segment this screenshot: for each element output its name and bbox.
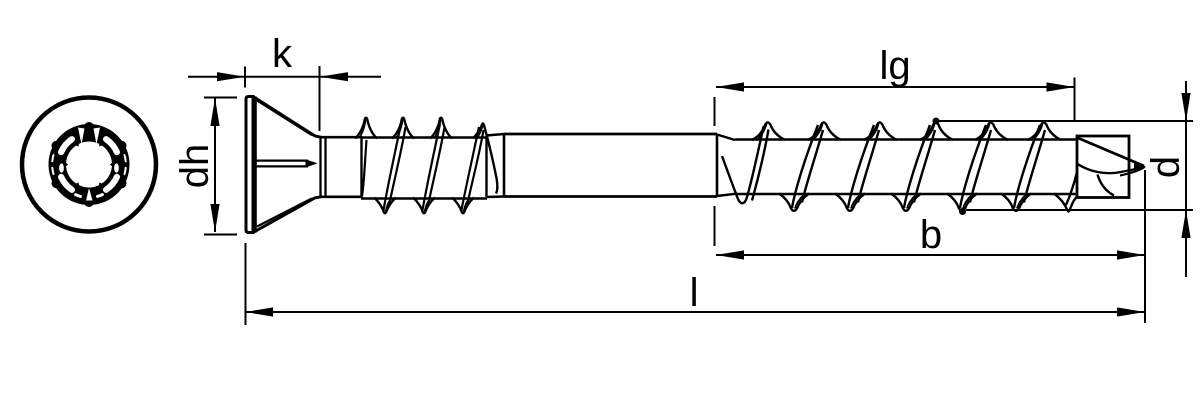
main thread bottom crest x=962 [947,194,977,211]
neck cylinder [321,136,362,139]
under-head thread top crest x=403 [392,118,414,139]
head cone inner bottom line [257,198,312,226]
svg-text:lg: lg [879,44,910,88]
main thread bottom crest x=794 [779,194,809,211]
thread-to-shank collar [485,136,487,197]
last under-head crest with run-out [473,124,497,194]
head recess mid wedge [306,159,318,167]
svg-text:d: d [1144,156,1188,178]
tip apex [1134,162,1146,173]
under-head thread bottom crest x=424 [413,198,435,214]
main thread top crest x=991 [975,122,1008,140]
shank end junction [716,134,719,197]
dim dh ext lines [204,97,237,99]
under-head thread top crest x=366 [355,118,377,139]
dim dh line [214,98,216,232]
main thread root cylinder [735,138,1078,141]
main thread flank pair from x=794 [792,125,818,208]
svg-text:b: b [920,213,942,257]
under-head thread bottom crest x=385 [374,198,396,214]
thread crest dots [933,118,940,125]
main thread bottom crest x=1016 [1001,194,1031,211]
head cone top edge [253,97,321,138]
under-head thread flank pair from x=385 [384,124,402,210]
head face right edge [254,97,257,233]
dim b line [716,254,1145,256]
main thread top crest x=768 [752,122,785,140]
svg-text:l: l [690,271,699,315]
dim lg/b ext line left [714,97,716,126]
under-head thread bottom crest x=463 [452,198,474,214]
dim d arrows [1185,81,1187,277]
torx top notches [78,128,85,145]
dim lg ext line right [1074,78,1076,123]
torx ring highlight slots [52,139,125,196]
head flat face (left) [246,97,253,233]
cut point scallop arc [1098,175,1115,196]
head cone inner top line [257,101,312,136]
main thread flank pair from x=906 [904,125,930,208]
shank-thread bevel [717,135,735,141]
dim l ext lines [245,243,247,325]
smooth shank [504,133,717,136]
cut point lower lip line [1078,164,1145,173]
main thread top crest x=824 [808,122,841,140]
svg-text:dh: dh [173,144,217,189]
cone-neck junction [319,137,321,197]
main thread top crest x=936 [920,122,953,140]
torx recess ring (black annulus with lobed outer edge) [52,122,127,207]
last flank into tip [1066,172,1077,205]
main thread top crest x=880 [864,122,897,140]
under-head thread root cylinder [361,136,487,139]
under-head thread top crest x=441 [430,118,452,139]
cut point main diagonal [1078,138,1144,166]
dim k ext lines [244,67,246,88]
main thread flank pair from x=962 [960,125,986,208]
under-head thread flank pair from x=463 [462,127,480,210]
cut point block [1077,136,1129,198]
head recess mid lines [256,160,308,162]
main thread flank pair from x=1016 [1014,125,1040,208]
main thread bottom crest x=850 [835,194,865,211]
under-head thread flank pair from x=424 [423,124,441,210]
screw head front view: outer circle [22,98,156,232]
last bottom crest at tip [1054,194,1077,212]
main thread flank pair from x=850 [848,125,874,208]
cut point beak lower line [1120,167,1145,176]
thread run-out [722,127,764,204]
svg-text:k: k [272,32,293,76]
main thread top crest x=1044 [1028,122,1061,140]
main thread bottom crest x=906 [891,194,921,211]
torx inner edge cusps [65,143,113,187]
dim k line [188,76,381,78]
dim lg line [716,86,1075,88]
dim d ext lines [939,120,1193,122]
dim l line [245,311,1145,313]
head cone bottom edge [253,197,321,233]
